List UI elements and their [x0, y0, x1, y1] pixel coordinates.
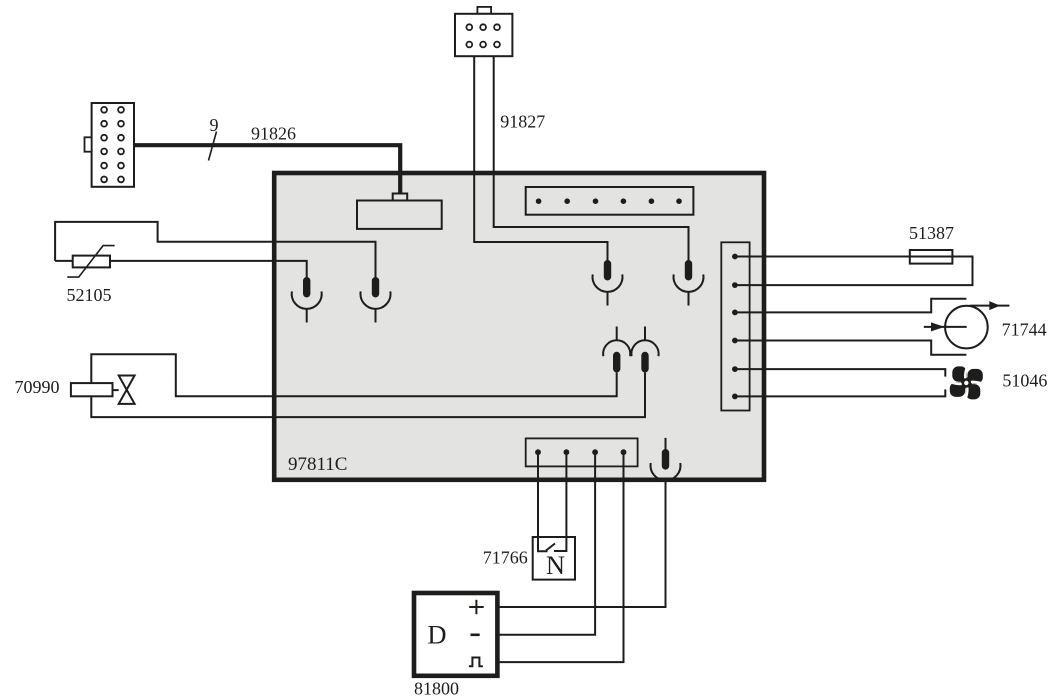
svg-text:N: N: [546, 550, 565, 580]
wire count slash: [209, 132, 217, 161]
svg-text:71744: 71744: [1002, 320, 1047, 340]
svg-text:51046: 51046: [1002, 371, 1047, 391]
socket P4: [673, 260, 703, 306]
4-pin strip (bottom): [526, 438, 638, 466]
defrost module 81800: [414, 593, 497, 676]
wire strip pin-3 to D minus: [499, 452, 595, 635]
svg-text:71766: 71766: [483, 548, 528, 568]
plug D1: [603, 327, 630, 373]
door switch 71766 box: [533, 537, 575, 580]
control board 97811C: [274, 173, 764, 480]
svg-text:91826: 91826: [251, 124, 296, 144]
pump 71744: [924, 301, 1010, 348]
fan 51046: [949, 366, 983, 400]
wire pin-4 to pump bottom: [735, 341, 967, 355]
pin mark minus: [471, 633, 480, 636]
wire harness 91826 (thick): [134, 145, 400, 194]
connector 91827: [455, 7, 512, 56]
svg-text:81800: 81800: [414, 679, 459, 697]
thermal fuse 51387: [910, 250, 953, 264]
socket P1: [292, 277, 322, 323]
svg-text:97811C: 97811C: [288, 454, 347, 475]
wire 52105 upper to P2: [55, 222, 375, 278]
svg-text:91827: 91827: [500, 112, 545, 132]
wire strip pin-2 to switch: [554, 452, 566, 551]
solenoid valve 70990: [71, 376, 135, 404]
connector 91826: [85, 103, 135, 187]
wire P5 to D plus: [499, 478, 665, 607]
svg-text:70990: 70990: [15, 377, 60, 397]
plug D2: [631, 327, 658, 373]
pin mark plus: [469, 606, 484, 608]
svg-text:D: D: [427, 620, 446, 650]
fuse loop wire (pins 1-2): [735, 257, 973, 286]
wire valve lower to D2: [91, 372, 645, 417]
wire 91827 pin-left to P3: [474, 56, 607, 261]
svg-text:9: 9: [210, 115, 219, 135]
6-pin output strip (right): [721, 242, 749, 410]
wire strip pin-1 to switch: [538, 452, 548, 551]
wire 91827 pin-right to P4: [494, 56, 689, 261]
wire valve upper to D1: [91, 354, 616, 396]
wire pin-3 to pump top: [735, 299, 967, 313]
6-pin header strip (top): [526, 187, 694, 215]
socket P3: [593, 260, 623, 306]
switch blade: [546, 544, 555, 551]
socket P2: [361, 277, 391, 323]
socket P5 (bottom): [650, 438, 680, 481]
wire strip pin-4 to D pulse: [499, 452, 623, 662]
svg-text:51387: 51387: [909, 223, 954, 243]
wire 52105 lower to P1: [55, 261, 307, 278]
wire pin-5 to fan: [735, 369, 945, 377]
pin mark pulse: [469, 658, 483, 667]
svg-text:52105: 52105: [67, 285, 112, 305]
wire pin-6 to fan: [735, 389, 945, 396]
relay box U1 on board: [357, 194, 442, 229]
thermistor 52105: [67, 246, 114, 278]
